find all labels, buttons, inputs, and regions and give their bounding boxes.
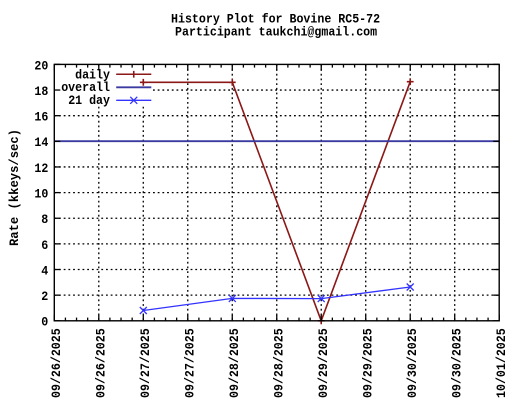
x minor tick 9.2 top — [476, 64, 478, 67]
x minor tick 5.1 bottom — [287, 318, 289, 321]
x minor tick 0.3 bottom — [87, 318, 89, 321]
x major tick 4 bottom — [231, 315, 233, 321]
21 day marker x point 4 — [407, 284, 414, 291]
vertical gridline at x tick 7 — [365, 64, 367, 320]
horizontal gridline y=12 — [54, 166, 499, 168]
daily marker + point 3 — [318, 317, 325, 324]
x minor tick 3.1 top — [198, 64, 200, 67]
svg-text:09/30/2025: 09/30/2025 — [449, 328, 464, 398]
svg-text:2: 2 — [41, 289, 48, 304]
x major tick 9 bottom — [454, 315, 456, 321]
y major tick 2 left — [54, 294, 60, 296]
y major tick 14 right — [493, 140, 499, 142]
x minor tick 9.3 bottom — [487, 318, 489, 321]
svg-text:20: 20 — [34, 58, 48, 73]
y major tick 20 right — [493, 63, 499, 65]
legend sample line daily — [116, 73, 151, 75]
x minor tick 9.3 top — [487, 64, 489, 67]
daily marker + point 4 — [407, 78, 414, 85]
y major tick 14 left — [54, 140, 60, 142]
x minor tick 6.1 top — [331, 64, 333, 67]
horizontal gridline y=16 — [54, 115, 499, 117]
x minor tick 6.2 bottom — [342, 318, 344, 321]
x major tick 2 top — [142, 64, 144, 70]
x minor tick 8.2 bottom — [431, 318, 433, 321]
x minor tick 2.3 bottom — [176, 318, 178, 321]
x minor tick 0.1 bottom — [64, 318, 66, 321]
svg-text:09/28/2025: 09/28/2025 — [227, 328, 242, 398]
vertical gridline at x tick 5 — [276, 64, 278, 320]
x minor tick 6.1 bottom — [331, 318, 333, 321]
x minor tick 1.1 bottom — [109, 318, 111, 321]
x minor tick 7.3 bottom — [398, 318, 400, 321]
svg-text:10/01/2025: 10/01/2025 — [494, 328, 509, 398]
horizontal gridline y=18 — [54, 89, 499, 91]
x major tick 0 bottom — [53, 315, 55, 321]
x minor tick 3.3 top — [220, 64, 222, 67]
21 day marker x point 2 — [229, 295, 236, 302]
x major tick 8 bottom — [409, 315, 411, 321]
21 day marker x point 1 — [140, 307, 147, 314]
horizontal gridline y=14 — [54, 140, 499, 142]
y major tick 4 right — [493, 269, 499, 271]
x minor tick 0.2 top — [76, 64, 78, 67]
x minor tick 3.1 bottom — [198, 318, 200, 321]
x major tick 0 top — [53, 64, 55, 70]
horizontal gridline y=8 — [54, 217, 499, 219]
vertical gridline at x tick 4 — [231, 64, 233, 320]
x major tick 6 top — [320, 64, 322, 70]
x major tick 3 bottom — [187, 315, 189, 321]
y major tick 2 right — [493, 294, 499, 296]
x minor tick 8.1 bottom — [420, 318, 422, 321]
svg-text:Participant taukchi@gmail.com: Participant taukchi@gmail.com — [175, 24, 377, 39]
svg-text:09/30/2025: 09/30/2025 — [405, 328, 420, 398]
x minor tick 3.2 bottom — [209, 318, 211, 321]
vertical gridline at x tick 3 — [187, 64, 189, 320]
y major tick 12 right — [493, 166, 499, 168]
x minor tick 6.2 top — [342, 64, 344, 67]
x minor tick 5.2 bottom — [298, 318, 300, 321]
daily series line — [143, 82, 410, 321]
svg-text:09/29/2025: 09/29/2025 — [360, 328, 375, 398]
x minor tick 4.3 bottom — [265, 318, 267, 321]
x minor tick 6.3 bottom — [354, 318, 356, 321]
y major tick 0 right — [493, 320, 499, 322]
x minor tick 8.3 bottom — [443, 318, 445, 321]
overall series line y=14 — [54, 140, 499, 142]
y major tick 20 left — [54, 63, 60, 65]
legend sample line overall — [116, 86, 151, 88]
y major tick 10 left — [54, 192, 60, 194]
horizontal gridline y=10 — [54, 192, 499, 194]
x minor tick 1.3 bottom — [131, 318, 133, 321]
x minor tick 1.2 bottom — [120, 318, 122, 321]
vertical gridline at x tick 6 — [320, 64, 322, 320]
x minor tick 7.2 bottom — [387, 318, 389, 321]
svg-text:09/26/2025: 09/26/2025 — [49, 328, 64, 398]
x minor tick 2.1 top — [153, 64, 155, 67]
x minor tick 4.3 top — [265, 64, 267, 67]
x minor tick 5.3 top — [309, 64, 311, 67]
x major tick 2 bottom — [142, 315, 144, 321]
y major tick 0 left — [54, 320, 60, 322]
x minor tick 6.3 top — [354, 64, 356, 67]
x minor tick 5.2 top — [298, 64, 300, 67]
21 day marker x point 3 — [318, 295, 325, 302]
x major tick 10 top — [498, 64, 500, 70]
x minor tick 5.1 top — [287, 64, 289, 67]
x minor tick 8.1 top — [420, 64, 422, 67]
horizontal gridline y=6 — [54, 243, 499, 245]
svg-text:14: 14 — [34, 135, 48, 150]
svg-text:12: 12 — [34, 161, 48, 176]
y major tick 6 right — [493, 243, 499, 245]
x minor tick 2.3 top — [176, 64, 178, 67]
svg-text:8: 8 — [41, 212, 48, 227]
svg-text:09/27/2025: 09/27/2025 — [138, 328, 153, 398]
x minor tick 8.3 top — [443, 64, 445, 67]
horizontal gridline y=4 — [54, 269, 499, 271]
x minor tick 3.3 bottom — [220, 318, 222, 321]
x minor tick 4.2 bottom — [254, 318, 256, 321]
x minor tick 3.2 top — [209, 64, 211, 67]
x major tick 5 bottom — [276, 315, 278, 321]
y major tick 4 left — [54, 269, 60, 271]
x major tick 1 bottom — [98, 315, 100, 321]
x minor tick 0.1 top — [64, 64, 66, 67]
x major tick 9 top — [454, 64, 456, 70]
vertical gridline at x tick 8 — [409, 64, 411, 320]
x major tick 3 top — [187, 64, 189, 70]
vertical gridline at x tick 9 — [454, 64, 456, 320]
x major tick 10 bottom — [498, 315, 500, 321]
vertical gridline at x tick 1 — [98, 64, 100, 320]
x major tick 7 top — [365, 64, 367, 70]
x minor tick 0.3 top — [87, 64, 89, 67]
svg-text:Rate (kkeys/sec): Rate (kkeys/sec) — [7, 129, 22, 246]
vertical gridline at x tick 2 — [142, 64, 144, 320]
y major tick 16 right — [493, 115, 499, 117]
svg-text:0: 0 — [41, 315, 48, 330]
svg-text:18: 18 — [34, 84, 48, 99]
x major tick 8 top — [409, 64, 411, 70]
svg-text:21 day: 21 day — [68, 93, 110, 108]
x minor tick 1.3 top — [131, 64, 133, 67]
x minor tick 4.2 top — [254, 64, 256, 67]
21 day series line — [143, 287, 410, 311]
x minor tick 7.1 bottom — [376, 318, 378, 321]
plot border box — [54, 64, 499, 320]
x minor tick 1.2 top — [120, 64, 122, 67]
daily marker + point 2 — [229, 79, 236, 86]
svg-text:09/29/2025: 09/29/2025 — [316, 328, 331, 398]
svg-text:6: 6 — [41, 238, 48, 253]
svg-text:4: 4 — [41, 263, 48, 278]
horizontal gridline y=2 — [54, 294, 499, 296]
svg-text:10: 10 — [34, 187, 48, 202]
x minor tick 0.2 bottom — [76, 318, 78, 321]
x minor tick 2.1 bottom — [153, 318, 155, 321]
x minor tick 2.2 top — [165, 64, 167, 67]
y major tick 8 left — [54, 217, 60, 219]
svg-text:16: 16 — [34, 110, 48, 125]
x minor tick 9.1 top — [465, 64, 467, 67]
x minor tick 8.2 top — [431, 64, 433, 67]
x minor tick 7.3 top — [398, 64, 400, 67]
y major tick 16 left — [54, 115, 60, 117]
x minor tick 7.1 top — [376, 64, 378, 67]
y major tick 6 left — [54, 243, 60, 245]
x major tick 6 bottom — [320, 315, 322, 321]
x minor tick 2.2 bottom — [165, 318, 167, 321]
x minor tick 9.2 bottom — [476, 318, 478, 321]
svg-text:09/26/2025: 09/26/2025 — [93, 328, 108, 398]
y major tick 12 left — [54, 166, 60, 168]
x minor tick 4.1 top — [242, 64, 244, 67]
legend marker daily + — [130, 71, 137, 78]
y major tick 18 left — [54, 89, 60, 91]
x major tick 5 top — [276, 64, 278, 70]
y major tick 10 right — [493, 192, 499, 194]
x minor tick 1.1 top — [109, 64, 111, 67]
legend marker 21 day x — [130, 97, 137, 104]
y major tick 18 right — [493, 89, 499, 91]
daily marker + point 1 — [140, 79, 147, 86]
svg-text:09/27/2025: 09/27/2025 — [182, 328, 197, 398]
x minor tick 5.3 bottom — [309, 318, 311, 321]
x major tick 1 top — [98, 64, 100, 70]
x major tick 4 top — [231, 64, 233, 70]
x minor tick 9.1 bottom — [465, 318, 467, 321]
y major tick 8 right — [493, 217, 499, 219]
legend sample line 21 day — [116, 99, 151, 101]
x major tick 7 bottom — [365, 315, 367, 321]
legend key opaque background — [55, 68, 152, 106]
x minor tick 4.1 bottom — [242, 318, 244, 321]
svg-text:09/28/2025: 09/28/2025 — [271, 328, 286, 398]
x minor tick 7.2 top — [387, 64, 389, 67]
